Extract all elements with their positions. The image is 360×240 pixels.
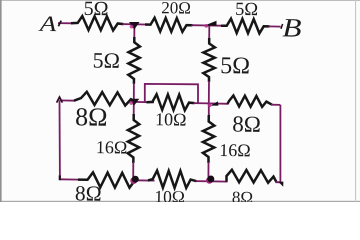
wire R13 to right rail [276, 181, 281, 183]
wire node B2 to R13 [210, 180, 228, 182]
node B1 junction dot halo [130, 177, 137, 184]
resistor R6 8&#937; mid-left [74, 92, 135, 106]
resistor R10 16&#937; right vertical [203, 115, 215, 163]
label 16&#937; for R10 [221, 144, 250, 156]
wire R1 to node T1 [123, 23, 135, 25]
label 10&#937; for R7 [157, 113, 186, 125]
video frame bottom line [0, 201, 360, 202]
wire R4 to node M1 [133, 83, 135, 102]
wire M2 down to R10 [208, 103, 210, 116]
resistor R8 8&#937; mid-right [228, 96, 273, 107]
wire T2 down to R5 [208, 26, 210, 40]
wire left rail top to R6 [60, 99, 76, 101]
label 10&#937; for R12 [156, 191, 184, 203]
wire node T1 to R2 [134, 23, 146, 25]
resistor R2 20&#937; top-middle [145, 18, 193, 32]
right rail bottom arrow [278, 182, 283, 187]
left rail top arrow [57, 97, 63, 103]
label 5&#937; for R3 [236, 3, 257, 16]
wire R7 to node M2 [194, 102, 209, 104]
wire R9 to node B1 [132, 162, 134, 180]
wire bypass loop over R7 [145, 84, 198, 103]
wire T1 down to R4 [133, 24, 135, 38]
node T2 arrow [204, 21, 217, 26]
wire left rail bottom to R11 [60, 178, 80, 180]
label 8&#937; for R11 [76, 186, 101, 201]
resistor R5 5&#937; right vertical [203, 38, 215, 82]
video frame top line [0, 0, 360, 1]
video frame left line [0, 0, 2, 202]
label 8&#937; for R8 [233, 116, 260, 132]
node T1 arrow magenta tip [130, 25, 134, 29]
wire node M2 to R8 [209, 102, 229, 104]
label 8&#937; for R13 [233, 192, 253, 204]
wire node M1 to R7 [134, 101, 155, 103]
node B2 junction dot halo [206, 177, 213, 184]
terminal B tick [281, 24, 283, 29]
video frame right line [355, 0, 356, 202]
resistor R9 16&#937; left vertical [128, 114, 140, 163]
left rail bottom tick [59, 175, 61, 180]
node B2 junction dot [207, 176, 214, 183]
node M2 arrow magenta tip [208, 103, 212, 107]
label 16&#937; for R9 [97, 141, 126, 153]
resistor R11 8&#937; bottom-left [78, 172, 135, 187]
resistor R3 5&#937; top-right [221, 19, 270, 34]
label 5&#937; for R1 [85, 2, 108, 16]
wire left rail [59, 100, 61, 179]
label 5&#937; for R5 [222, 57, 249, 73]
wire M1 down to R9 [133, 102, 135, 115]
node M2 arrow [211, 101, 219, 105]
resistor R13 8&#937; bottom-right [227, 170, 277, 183]
node T1 arrow [129, 22, 140, 30]
node B1 junction dot [132, 176, 139, 183]
wire node B1 to R12 [135, 179, 155, 181]
wire R12 to node B2 [196, 180, 211, 182]
wire R5 to node M2 [208, 81, 210, 103]
node T2 arrow magenta tip [204, 24, 208, 28]
wire R2 to node T2 [192, 24, 210, 26]
wire R6 to node M1 [133, 101, 134, 103]
terminal label A [38, 17, 56, 32]
label 20&#937; for R2 [162, 2, 190, 14]
label 5&#937; for R4 [94, 53, 119, 68]
wire R10 to node B2 [207, 162, 209, 181]
label 8&#937; for R6 [76, 108, 106, 126]
wire R8 to right rail [271, 104, 280, 106]
wire R11 to node B1 [135, 179, 137, 181]
wire right rail [279, 105, 281, 182]
resistor R12 10&#937; bottom-middle [148, 171, 197, 188]
resistor R4 5&#937; left vertical [128, 37, 140, 84]
resistor R1 5&#937; top-left [71, 16, 124, 30]
terminal label B [283, 19, 301, 36]
terminal A tick [58, 21, 61, 27]
wire A to R1 [58, 22, 73, 24]
node M1 arrow magenta tip [129, 101, 133, 105]
resistor R7 10&#937; mid-middle [147, 94, 195, 110]
wire node T2 to R3 [209, 25, 223, 27]
node M1 arrow [129, 99, 139, 106]
wire R3 to B [269, 25, 281, 27]
